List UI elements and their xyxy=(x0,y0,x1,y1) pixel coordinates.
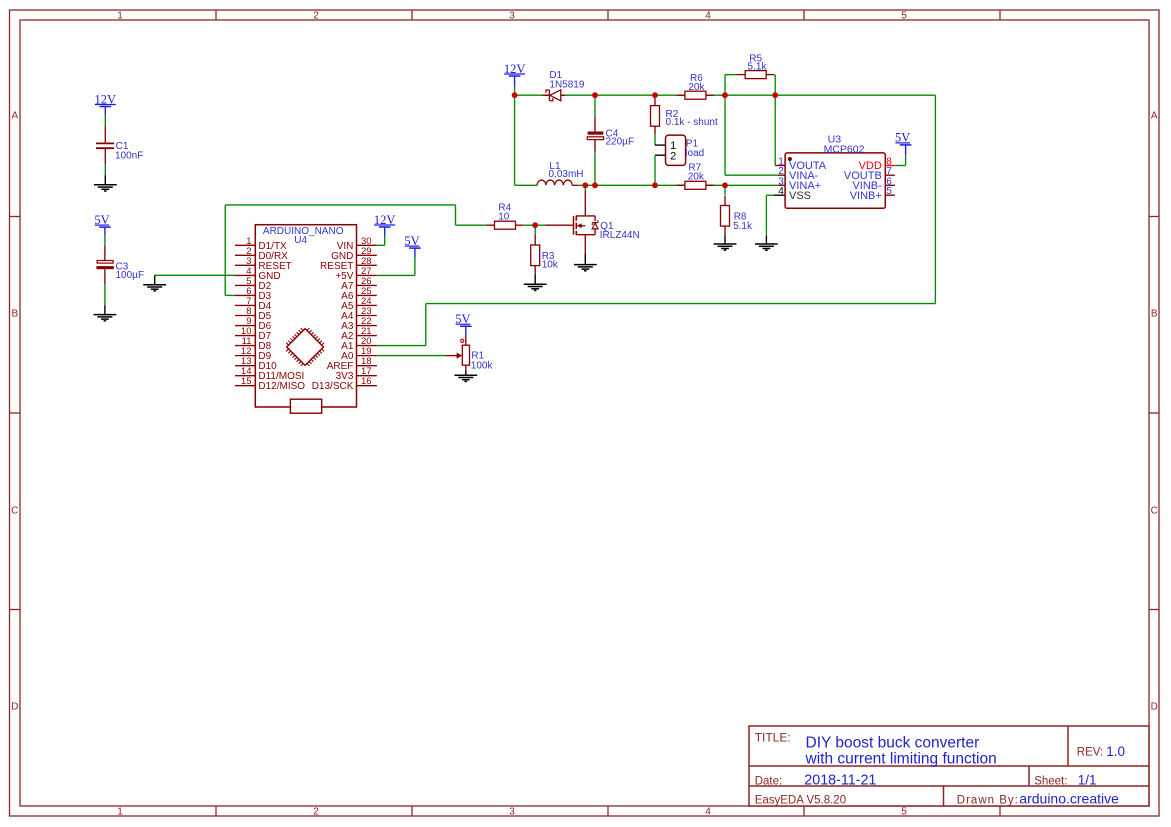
svg-text:2: 2 xyxy=(313,10,319,21)
svg-text:C: C xyxy=(11,505,18,516)
svg-text:220µF: 220µF xyxy=(606,137,635,148)
svg-text:EasyEDA V5.8.20: EasyEDA V5.8.20 xyxy=(755,795,846,807)
svg-text:TITLE:: TITLE: xyxy=(755,731,791,745)
svg-text:1/1: 1/1 xyxy=(1078,773,1097,788)
svg-text:1.0: 1.0 xyxy=(1106,744,1125,759)
svg-text:2018-11-21: 2018-11-21 xyxy=(804,773,876,789)
svg-text:DIY boost buck converter: DIY boost buck converter xyxy=(806,735,980,752)
svg-text:16: 16 xyxy=(361,376,372,387)
svg-text:5: 5 xyxy=(901,806,907,817)
svg-text:1: 1 xyxy=(117,806,123,817)
svg-text:C: C xyxy=(1151,505,1158,516)
svg-text:20k: 20k xyxy=(688,171,705,182)
svg-text:1: 1 xyxy=(117,10,123,21)
svg-text:Date:: Date: xyxy=(755,776,783,788)
svg-text:D13/SCK: D13/SCK xyxy=(312,381,354,392)
svg-text:4: 4 xyxy=(705,806,711,817)
svg-text:load: load xyxy=(685,148,704,159)
svg-text:5.1k: 5.1k xyxy=(748,61,768,72)
svg-text:D: D xyxy=(1151,701,1158,712)
svg-text:MCP602: MCP602 xyxy=(824,144,865,156)
svg-text:VSS: VSS xyxy=(789,190,811,202)
svg-text:with current limiting function: with current limiting function xyxy=(805,751,997,768)
svg-text:10: 10 xyxy=(498,211,510,222)
svg-text:B: B xyxy=(11,308,18,319)
svg-text:15: 15 xyxy=(241,376,252,387)
svg-text:5: 5 xyxy=(886,186,892,197)
svg-text:2: 2 xyxy=(670,151,676,163)
svg-text:A: A xyxy=(1151,110,1158,121)
svg-text:arduino.creative: arduino.creative xyxy=(1019,790,1119,806)
svg-text:Sheet:: Sheet: xyxy=(1034,776,1067,788)
svg-text:0.03mH: 0.03mH xyxy=(549,169,584,180)
svg-text:VINB+: VINB+ xyxy=(850,190,882,202)
svg-text:10k: 10k xyxy=(542,260,559,271)
svg-text:20k: 20k xyxy=(688,82,705,93)
svg-text:D12/MISO: D12/MISO xyxy=(258,381,305,392)
svg-text:5: 5 xyxy=(901,10,907,21)
svg-text:D: D xyxy=(11,701,18,712)
svg-text:IRLZ44N: IRLZ44N xyxy=(600,230,640,241)
svg-text:U4: U4 xyxy=(294,235,307,246)
svg-text:100nF: 100nF xyxy=(115,151,143,162)
svg-text:A: A xyxy=(11,110,18,121)
svg-text:5.1k: 5.1k xyxy=(733,221,753,232)
svg-text:0.1k - shunt: 0.1k - shunt xyxy=(666,117,718,128)
svg-text:4: 4 xyxy=(778,186,784,197)
svg-text:B: B xyxy=(1151,308,1158,319)
svg-text:3: 3 xyxy=(509,806,515,817)
svg-text:2: 2 xyxy=(313,806,319,817)
svg-text:Drawn By:: Drawn By: xyxy=(957,795,1019,807)
svg-text:100µF: 100µF xyxy=(116,270,145,281)
svg-text:3: 3 xyxy=(509,10,515,21)
svg-text:100k: 100k xyxy=(471,360,494,371)
svg-text:REV:: REV: xyxy=(1077,747,1103,759)
svg-text:4: 4 xyxy=(705,10,711,21)
svg-text:1N5819: 1N5819 xyxy=(549,79,584,90)
